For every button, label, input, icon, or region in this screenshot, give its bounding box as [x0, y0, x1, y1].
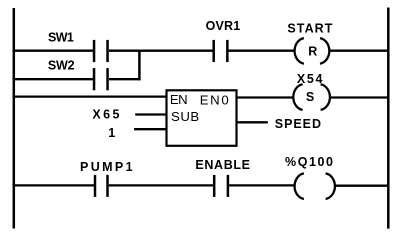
wire rung4 rail to PUMP1: [13, 184, 95, 186]
wire OVR1 to R coil: [228, 50, 294, 52]
wire PUMP1 to ENABLE: [109, 184, 214, 186]
svg-text:SW2: SW2: [48, 59, 75, 73]
svg-text:X54: X54: [297, 72, 323, 86]
wire SW2 to branch join: [109, 78, 141, 80]
contact OVR1: [212, 40, 215, 62]
wire SW1 to OVR1: [109, 50, 213, 52]
wire 1 to SUB block: [134, 128, 166, 130]
wire rail to SW2: [13, 78, 94, 80]
svg-text:R: R: [308, 44, 317, 58]
left power rail: [13, 8, 16, 229]
svg-text:EN0: EN0: [200, 92, 229, 107]
right power rail: [387, 8, 390, 229]
svg-text:START: START: [287, 21, 332, 35]
wire rung2 rail to SUB block EN: [13, 95, 167, 97]
svg-text:SW1: SW1: [48, 31, 74, 45]
wire ENABLE to Q100 coil: [229, 184, 295, 186]
wire rung1 rail to SW1: [13, 50, 94, 52]
coil Q100 left paren: [295, 173, 304, 199]
coil START R left paren: [295, 38, 304, 64]
svg-text:S: S: [306, 90, 314, 104]
coil START R right paren: [320, 38, 329, 64]
wire branch vertical join: [138, 50, 141, 81]
wire R coil to right rail: [330, 50, 390, 52]
svg-text:PUMP1: PUMP1: [80, 160, 133, 174]
wire SUB output to SPEED: [237, 121, 268, 123]
function block SUB: [167, 90, 237, 146]
coil Q100 right paren: [326, 173, 335, 199]
svg-text:X65: X65: [92, 107, 119, 121]
svg-text:SUB: SUB: [171, 109, 199, 124]
svg-text:EN: EN: [170, 92, 188, 107]
contact ENABLE: [213, 175, 216, 197]
svg-text:1: 1: [108, 126, 115, 140]
coil X54 S right paren: [321, 84, 330, 110]
svg-text:OVR1: OVR1: [206, 19, 241, 33]
wire SUB ENO to S coil: [237, 96, 294, 98]
wire S coil to right rail: [330, 96, 390, 98]
contact SW2: [93, 68, 96, 90]
wire X65 to SUB block: [135, 113, 166, 115]
contact SW1: [93, 40, 96, 62]
contact PUMP1: [94, 175, 97, 197]
wire Q100 coil to right rail: [335, 185, 390, 187]
coil X54 S left paren: [293, 84, 302, 110]
svg-text:ENABLE: ENABLE: [195, 158, 250, 172]
svg-text:SPEED: SPEED: [275, 117, 321, 131]
svg-text:%Q100: %Q100: [285, 155, 333, 169]
